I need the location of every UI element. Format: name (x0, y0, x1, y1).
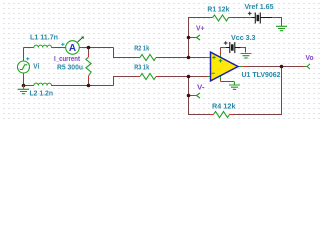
svg-text:I_current: I_current (54, 54, 80, 63)
svg-text:Vref 1.65: Vref 1.65 (245, 2, 274, 11)
svg-text:A: A (69, 43, 76, 54)
svg-text:V+: V+ (196, 24, 205, 33)
svg-text:R3 1k: R3 1k (134, 63, 150, 72)
svg-text:U1 TLV9062: U1 TLV9062 (242, 70, 281, 79)
svg-text:V-: V- (197, 83, 205, 92)
svg-text:L1 11.7n: L1 11.7n (30, 32, 58, 41)
svg-text:R1 12k: R1 12k (207, 4, 230, 13)
svg-text:L2 1.2n: L2 1.2n (30, 89, 54, 98)
svg-text:Vo: Vo (306, 53, 314, 62)
svg-text:Vcc 3.3: Vcc 3.3 (231, 33, 256, 42)
svg-text:R2 1k: R2 1k (134, 44, 150, 53)
svg-text:R4 12k: R4 12k (212, 102, 236, 111)
svg-text:R5 300u: R5 300u (57, 62, 83, 71)
svg-text:Vi: Vi (33, 61, 39, 70)
